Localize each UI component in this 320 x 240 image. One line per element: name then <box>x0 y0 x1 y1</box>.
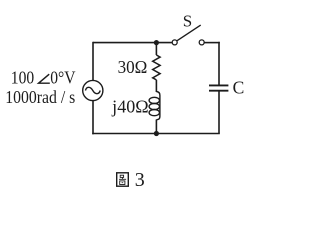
svg-text:100: 100 <box>11 68 34 88</box>
wire middle branch upper <box>155 43 157 55</box>
svg-text:S: S <box>183 11 192 30</box>
svg-text:j40Ω: j40Ω <box>111 96 148 116</box>
wire right branch lower <box>218 91 220 133</box>
angle symbol <box>39 74 50 83</box>
ac source V1 circle <box>83 80 103 100</box>
switch S blade <box>177 25 201 41</box>
node junction bottom <box>154 131 159 136</box>
wire right branch upper <box>218 42 220 85</box>
svg-text:0°V: 0°V <box>50 68 75 88</box>
svg-text:C: C <box>233 78 245 98</box>
wire bottom <box>92 133 220 135</box>
svg-text:3: 3 <box>135 169 145 191</box>
wire left branch upper <box>92 42 94 81</box>
caption glyph tu (figure) <box>117 173 129 186</box>
switch S right terminal <box>199 40 204 45</box>
wire middle branch lower <box>155 120 157 134</box>
wire top right segment <box>204 42 220 44</box>
svg-text:30Ω: 30Ω <box>118 57 148 77</box>
capacitor C plates <box>209 84 228 86</box>
wire left branch lower <box>92 100 94 134</box>
wire middle branch between resistor and inductor <box>155 80 157 92</box>
ac source sine wave <box>85 87 100 93</box>
node junction top <box>154 40 159 45</box>
resistor 30ohm zigzag <box>153 55 160 80</box>
inductor j40ohm coil <box>149 92 160 120</box>
wire top left segment <box>93 42 172 44</box>
switch S left terminal <box>172 40 177 45</box>
svg-text:1000rad / s: 1000rad / s <box>5 87 75 107</box>
